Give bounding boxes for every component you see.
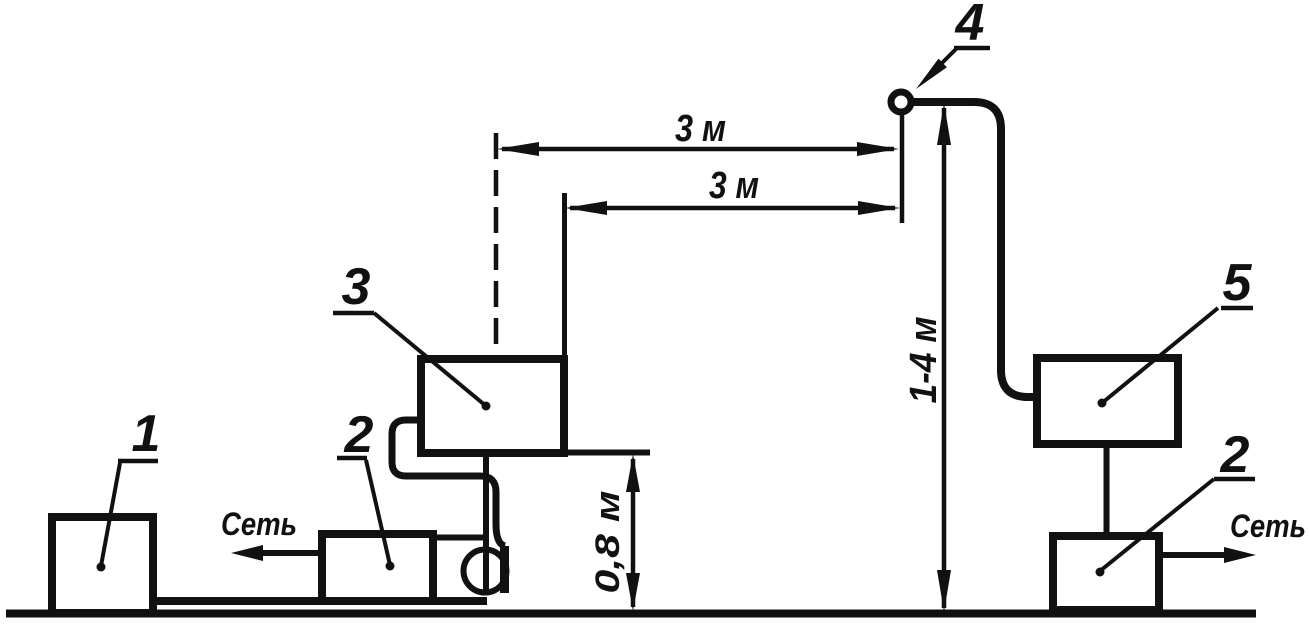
svg-text:4: 4 bbox=[955, 0, 985, 52]
label 5 underline bbox=[1221, 306, 1253, 311]
box 3 bbox=[421, 359, 564, 453]
label 2 left underline bbox=[337, 456, 367, 461]
fan bar bbox=[500, 546, 509, 593]
arrow Сеть left bbox=[231, 545, 318, 561]
wire below circle 4 bbox=[900, 114, 905, 223]
extension line 0,8 м bbox=[568, 450, 650, 456]
dimension 3m upper bbox=[497, 142, 899, 156]
box 1 bbox=[52, 517, 153, 613]
dimension 0,8 м bbox=[626, 454, 640, 611]
svg-text:Сеть: Сеть bbox=[1230, 508, 1306, 544]
box 2 left bbox=[322, 534, 433, 601]
fan circle bbox=[464, 550, 507, 593]
text 0,8 м bbox=[589, 491, 627, 594]
dashed extension line bbox=[494, 133, 499, 355]
wire box2 to fan bbox=[434, 535, 486, 541]
leader 2 left bbox=[366, 460, 395, 571]
leader 2 right bbox=[1096, 479, 1215, 577]
wire box1 to box2 bbox=[153, 597, 487, 605]
microphone circle 4 bbox=[891, 92, 911, 112]
cable S from box3 to fan bbox=[392, 420, 505, 546]
label 1 bbox=[132, 405, 161, 463]
text Сеть right bbox=[1230, 508, 1306, 544]
svg-text:2: 2 bbox=[344, 406, 374, 464]
label 3 underline bbox=[333, 311, 374, 316]
label 2 left bbox=[344, 406, 374, 464]
label 4 underline bbox=[954, 46, 990, 51]
text 1-4 м bbox=[903, 317, 945, 404]
dimension 3m lower bbox=[565, 201, 900, 215]
svg-text:1: 1 bbox=[132, 405, 161, 463]
text Сеть left bbox=[221, 506, 297, 542]
solid extension line bbox=[562, 193, 567, 360]
svg-text:3 м: 3 м bbox=[709, 165, 759, 207]
dimension 1-4 м bbox=[937, 103, 951, 612]
ground bbox=[6, 610, 1256, 618]
label 3 bbox=[342, 258, 371, 316]
label 5 bbox=[1223, 254, 1253, 312]
svg-text:Сеть: Сеть bbox=[221, 506, 297, 542]
text 3 м upper bbox=[675, 108, 726, 150]
cable from circle 4 to box 5 bbox=[913, 102, 1033, 397]
label 4 bbox=[955, 0, 985, 52]
svg-text:2: 2 bbox=[1220, 426, 1250, 484]
leader 4 with arrow bbox=[916, 49, 956, 89]
svg-text:1-4 м: 1-4 м bbox=[903, 317, 945, 404]
svg-text:3 м: 3 м bbox=[675, 108, 726, 150]
leader 3 bbox=[374, 313, 491, 411]
wire box5 to box2 right bbox=[1104, 445, 1110, 535]
box 2 right bbox=[1053, 536, 1159, 610]
label 2 right underline bbox=[1214, 477, 1255, 482]
text 3 м lower bbox=[709, 165, 759, 207]
svg-text:5: 5 bbox=[1223, 254, 1253, 312]
svg-text:3: 3 bbox=[342, 258, 371, 316]
label 2 right bbox=[1220, 426, 1250, 484]
leader 1 bbox=[97, 463, 121, 572]
arrow Сеть right bbox=[1163, 547, 1256, 563]
leader 5 bbox=[1098, 308, 1219, 408]
box 5 bbox=[1037, 358, 1178, 444]
label 1 underline bbox=[118, 459, 158, 464]
wire box3 bottom to fan bbox=[483, 457, 489, 595]
svg-text:0,8 м: 0,8 м bbox=[589, 491, 627, 594]
